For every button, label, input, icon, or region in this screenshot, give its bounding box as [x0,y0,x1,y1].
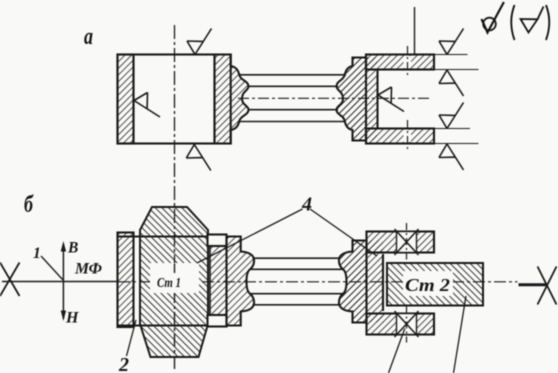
svg-text:Н: Н [65,310,79,327]
svg-text:а: а [84,24,93,50]
svg-text:1: 1 [33,245,41,262]
svg-text:МФ: МФ [74,261,102,278]
svg-text:2: 2 [118,354,129,373]
svg-text:Ст 1: Ст 1 [157,276,181,291]
svg-text:б: б [24,192,34,218]
svg-text:В: В [67,240,78,257]
svg-text:Ст 2: Ст 2 [405,275,450,295]
svg-text:4: 4 [301,194,312,216]
